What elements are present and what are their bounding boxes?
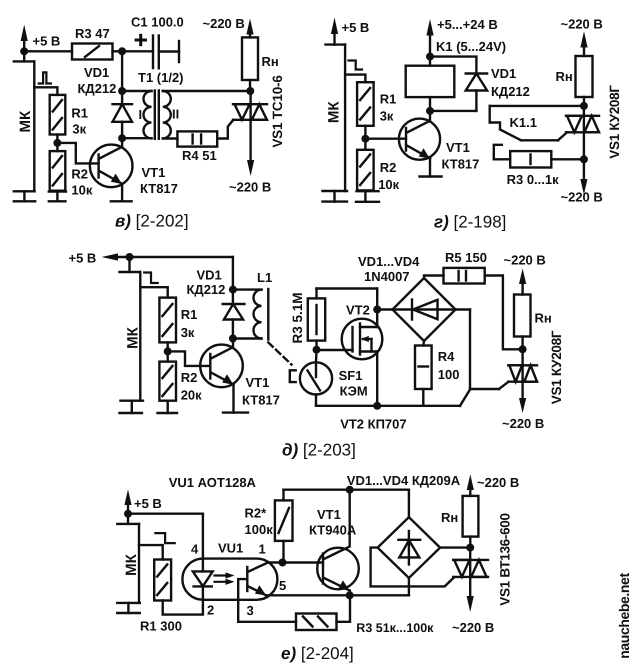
- power +5V arrow left (d): [69, 251, 130, 266]
- svg-text:КД212: КД212: [491, 84, 530, 99]
- ground MK (g): [323, 191, 348, 202]
- svg-text:VT2 КП707: VT2 КП707: [340, 417, 406, 432]
- node drain/bridge (d): [373, 306, 381, 314]
- resistor R2 20k (d): [159, 362, 202, 403]
- transistor VT1 KT817 (d): [200, 339, 280, 413]
- wire emitter node to bridge bottom (e): [350, 594, 409, 596]
- svg-text:МК: МК: [123, 553, 140, 575]
- wire R1-R2 with node (g): [364, 126, 366, 150]
- svg-text:R4 51: R4 51: [182, 148, 217, 163]
- pulse symbol (g): [349, 61, 363, 70]
- wire top to VD1/L1 node: [232, 257, 234, 290]
- svg-text:~220 В: ~220 В: [229, 180, 271, 195]
- load Rn (e): [441, 496, 478, 548]
- wire MK pin to R1: [34, 87, 57, 95]
- ground MK (v): [14, 191, 35, 201]
- pulse symbol (e): [155, 533, 174, 543]
- wire gate (d): [317, 349, 353, 351]
- svg-text:3к: 3к: [181, 325, 195, 340]
- wire bridge left corner to triac gate (e): [371, 548, 454, 587]
- svg-text:4: 4: [191, 542, 199, 557]
- wire R1-R2 with node: [56, 135, 58, 152]
- transistor VT1 KT817 (v): [90, 138, 178, 201]
- pulse symbol (d): [144, 273, 158, 284]
- wire top rail K1.1 (g): [490, 105, 584, 107]
- svg-text:+5 В: +5 В: [33, 34, 61, 49]
- svg-text:R4: R4: [438, 349, 455, 364]
- wire opto emitter to node (e): [266, 594, 350, 596]
- wire node to VT1 base (g): [365, 137, 406, 139]
- svg-text:КТ817: КТ817: [242, 393, 280, 408]
- svg-text:VS1 ВТ136-600: VS1 ВТ136-600: [498, 513, 513, 605]
- svg-text:~220 В: ~220 В: [561, 190, 603, 205]
- LED inside VU1: [193, 571, 213, 586]
- svg-text:~220 В: ~220 В: [477, 475, 519, 490]
- svg-text:+5 В: +5 В: [342, 20, 370, 35]
- svg-text:+5 В: +5 В: [69, 251, 97, 266]
- svg-text:2: 2: [207, 603, 214, 618]
- svg-text:1: 1: [259, 542, 266, 557]
- triac VS1 KU208G (g): [566, 85, 622, 160]
- resistor R1 300: [140, 560, 182, 634]
- svg-text:VT1: VT1: [446, 140, 470, 155]
- svg-text:R1: R1: [380, 92, 397, 107]
- ground R2 (d): [158, 401, 178, 413]
- svg-text:R3 51к...100к: R3 51к...100к: [356, 621, 434, 635]
- capacitor C1 100.0: [131, 15, 184, 69]
- diode VD1 KD212 (v): [78, 65, 133, 138]
- triac VS1 BT136-600: [453, 513, 512, 605]
- svg-text:е) [2-204]: е) [2-204]: [281, 644, 354, 663]
- node triac bottom (g): [580, 155, 588, 163]
- MCU MK block (g): [326, 45, 346, 191]
- node triac top (g): [580, 102, 588, 110]
- wire node to VT1 base (d): [168, 351, 211, 366]
- wire node down to VD1/T1: [121, 51, 123, 91]
- svg-text:L1: L1: [257, 270, 272, 285]
- wire node to VD1 (g): [430, 57, 476, 74]
- node R1/R2 (g): [361, 135, 369, 143]
- wire MK pin to R1 (e): [139, 545, 163, 559]
- svg-text:nauchebe.net: nauchebe.net: [616, 573, 632, 659]
- resistor R3 0...1k: [507, 151, 560, 187]
- svg-text:Rн: Rн: [441, 510, 458, 525]
- triac VS1 KU208G (d): [508, 330, 564, 404]
- transformer T1 (1/2): [122, 70, 183, 139]
- svg-text:д) [2-203]: д) [2-203]: [282, 441, 356, 460]
- svg-text:R2: R2: [380, 160, 397, 175]
- svg-text:I: I: [139, 107, 143, 122]
- svg-text:МК: МК: [125, 326, 142, 348]
- svg-text:~220 В: ~220 В: [561, 17, 603, 32]
- load Rn (g): [556, 56, 593, 106]
- svg-text:VD1: VD1: [197, 268, 222, 283]
- node +5V (e): [124, 510, 132, 518]
- svg-text:VU1 АОТ128А: VU1 АОТ128А: [169, 475, 257, 490]
- node R1/R2 (v): [53, 139, 61, 147]
- diode VD1 KD212 (d): [187, 268, 245, 339]
- wire +5V to opto pin4: [128, 514, 203, 572]
- node source/rail (d): [373, 402, 381, 410]
- light arrows: [215, 572, 235, 585]
- svg-text:МК: МК: [17, 110, 34, 132]
- ground VT1 emitter (d): [223, 411, 248, 413]
- svg-text:VD1...VD4 КД209А: VD1...VD4 КД209А: [347, 473, 461, 488]
- wire bridge bottom to emitter rail (e): [408, 578, 410, 595]
- bridge rectifier VD1...VD4 1N4007: [358, 254, 456, 341]
- svg-text:~220 В: ~220 В: [452, 620, 494, 635]
- svg-text:~220 В: ~220 В: [203, 16, 245, 31]
- svg-text:VD1: VD1: [84, 65, 109, 80]
- bridge rectifier VD1...VD4 KD209A: [347, 473, 461, 578]
- svg-text:КТ817: КТ817: [442, 157, 480, 172]
- node triac top (v): [246, 87, 254, 95]
- resistor R2 10k (g): [357, 150, 400, 192]
- ground MK (e): [117, 603, 140, 613]
- ground R2 (g): [356, 191, 379, 202]
- svg-text:R2*: R2*: [245, 506, 268, 521]
- wire collector to VT1 base (e): [268, 561, 323, 563]
- wire T1 secondary top to triac node: [163, 90, 251, 92]
- MCU MK block (e): [117, 514, 140, 603]
- svg-text:R2: R2: [181, 370, 198, 385]
- resistor R2* 100k: [245, 490, 293, 563]
- resistor R2 10k (v): [50, 151, 93, 197]
- pulse symbol (v): [39, 72, 51, 83]
- wire R5 to triac node (d): [485, 276, 523, 350]
- arrow down ~220V (v): [229, 120, 271, 195]
- svg-text:R3 5.1M: R3 5.1M: [290, 292, 305, 343]
- node +5V (d): [126, 253, 134, 261]
- svg-text:Rн: Rн: [535, 311, 552, 326]
- MCU MK block (d): [120, 257, 142, 401]
- resistor R3 5.1M (d): [290, 289, 325, 350]
- node T1 primary bottom: [118, 134, 126, 142]
- node R3 bottom / gate (d): [313, 346, 321, 354]
- wire R4 to triac gate: [217, 120, 233, 139]
- wire R1-R2 with node (d): [166, 342, 168, 361]
- node R1/R2 (d): [164, 347, 172, 355]
- svg-text:1N4007: 1N4007: [364, 269, 410, 284]
- node R2/base (e): [279, 559, 287, 567]
- triac VS1 TS10-6: [233, 75, 285, 148]
- arrow down ~220V (e): [452, 577, 494, 635]
- dashed magnetic coupling L1-SF1: [268, 343, 291, 365]
- MOSFET VT2 KP707: [342, 303, 383, 406]
- svg-text:C1 100.0: C1 100.0: [131, 15, 184, 30]
- svg-text:K1 (5...24V): K1 (5...24V): [436, 39, 506, 54]
- svg-text:R1: R1: [181, 307, 198, 322]
- node emitter (e): [346, 591, 354, 599]
- top wire to drain (d): [317, 289, 378, 328]
- svg-text:SF1: SF1: [339, 368, 363, 383]
- svg-text:R3 0...1к: R3 0...1к: [507, 172, 560, 187]
- svg-text:VS1 ТС10-6: VS1 ТС10-6: [270, 75, 285, 148]
- svg-text:5: 5: [279, 578, 286, 593]
- arrow up ~220V (e): [467, 474, 520, 496]
- wire node to primary: [122, 90, 151, 92]
- MCU MK block (v): [14, 51, 35, 191]
- resistor R3 51k...100k: [296, 614, 434, 636]
- svg-text:VT2: VT2: [346, 303, 370, 318]
- svg-text:R2: R2: [71, 167, 88, 182]
- svg-text:R1 300: R1 300: [140, 619, 182, 634]
- node relay top (g): [426, 53, 434, 61]
- resistor R1 3k (v): [50, 95, 88, 137]
- node +5V junction (v): [20, 47, 28, 55]
- svg-text:R5 150: R5 150: [445, 250, 487, 265]
- svg-text:10к: 10к: [378, 177, 399, 192]
- wire R3 to triac node (g): [551, 158, 584, 160]
- svg-text:МК: МК: [326, 101, 343, 123]
- wire T1 secondary bottom to R4: [163, 137, 178, 139]
- svg-text:II: II: [172, 107, 179, 122]
- svg-text:K1.1: K1.1: [510, 115, 537, 130]
- transistor VT1 KT817 (g): [399, 111, 479, 177]
- power +5V arrow (e): [124, 490, 161, 514]
- svg-text:~220 В: ~220 В: [504, 253, 546, 268]
- arrow up ~220V (d): [504, 253, 546, 295]
- ground VT1 emitter (g): [420, 175, 442, 177]
- arrow +5...+24V (g): [426, 17, 497, 57]
- resistor R1 3k (g): [357, 82, 396, 126]
- wire node to VT1 base: [57, 143, 98, 164]
- svg-text:+5 В: +5 В: [134, 496, 162, 511]
- wire bridge right corner to triac node (e): [440, 546, 470, 548]
- svg-text:Rн: Rн: [262, 54, 279, 69]
- svg-text:3к: 3к: [380, 109, 394, 124]
- transistor VT1 KT940A: [309, 490, 359, 596]
- load Rn (d): [514, 295, 552, 350]
- resistor R4 51: [177, 131, 217, 163]
- node VD1/L1 top (d): [229, 286, 237, 294]
- svg-text:VS1 КУ208Г: VS1 КУ208Г: [549, 330, 564, 404]
- gate wiring to bridge right corner (d): [456, 310, 509, 406]
- contact lower terminal to R3 (g): [494, 145, 510, 160]
- svg-text:Rн: Rн: [556, 69, 573, 84]
- inductor L1 electromagnet: [233, 270, 272, 340]
- wire MK pin to R1 (d): [140, 287, 167, 297]
- node collector/top wire (e): [346, 486, 354, 494]
- wire R1 to opto pin2: [163, 586, 203, 614]
- svg-text:20к: 20к: [181, 388, 202, 403]
- resistor R5 150: [424, 250, 487, 284]
- svg-text:R1: R1: [71, 106, 88, 121]
- phototransistor inside VU1: [238, 563, 296, 622]
- node T1 primary top: [118, 87, 126, 95]
- ground VT1 emitter (v): [111, 200, 132, 202]
- svg-text:КЭМ: КЭМ: [340, 384, 368, 399]
- arrow up ~220V (g): [561, 17, 603, 57]
- svg-text:КТ817: КТ817: [140, 181, 178, 196]
- wire MK pin to R1 (g): [345, 75, 365, 83]
- svg-text:г) [2-198]: г) [2-198]: [434, 213, 506, 232]
- svg-text:3: 3: [247, 603, 254, 618]
- svg-text:VT1: VT1: [246, 375, 270, 390]
- top wire (d): [130, 256, 233, 258]
- wire R3 to emitter node (e): [337, 595, 351, 622]
- load Rn (v): [242, 37, 279, 91]
- diode VD1 KD212 (g): [430, 66, 530, 111]
- wire +5V to R3: [24, 50, 72, 52]
- svg-text:3к: 3к: [72, 122, 86, 137]
- resistor R1 3k (d): [159, 298, 197, 343]
- svg-text:10к: 10к: [71, 183, 92, 198]
- power +5V arrow (g): [331, 18, 369, 45]
- wire R3 to C1: [113, 50, 154, 52]
- ground R2 (v): [49, 192, 66, 202]
- power +5V arrow (v): [21, 25, 61, 52]
- svg-text:VS1 КУ208Г: VS1 КУ208Г: [607, 85, 622, 159]
- svg-text:КД212: КД212: [78, 81, 117, 96]
- optocoupler VU1 body: [182, 541, 286, 619]
- svg-text:в) [2-202]: в) [2-202]: [115, 212, 189, 231]
- reed switch SF1 KEM: [290, 350, 368, 406]
- node R3/VD1 junction: [118, 47, 126, 55]
- arrow down ~220V (d): [502, 382, 544, 431]
- ground MK (d): [120, 401, 144, 413]
- node relay bottom (g): [426, 107, 434, 115]
- svg-text:R3 47: R3 47: [75, 26, 110, 41]
- svg-text:+5...+24 В: +5...+24 В: [437, 17, 498, 32]
- bottom rail (d): [316, 405, 460, 407]
- svg-text:VD1...VD4: VD1...VD4: [358, 254, 420, 269]
- resistor R3 47: [72, 26, 113, 60]
- svg-text:~220 В: ~220 В: [502, 416, 544, 431]
- svg-text:VT1: VT1: [317, 507, 341, 522]
- svg-text:T1 (1/2): T1 (1/2): [138, 70, 184, 85]
- svg-text:КД212: КД212: [187, 282, 226, 297]
- svg-text:VU1: VU1: [218, 541, 243, 556]
- node VD1/L1 bottom (d): [229, 335, 237, 343]
- arrow up ~220V (v): [203, 16, 254, 38]
- node Rn/triac (e): [466, 544, 474, 552]
- svg-text:100: 100: [438, 367, 460, 382]
- node Rn/triac (d): [519, 345, 527, 353]
- relay K1 coil: [406, 39, 506, 111]
- wire node to bridge left corner (d): [377, 308, 392, 310]
- arrow down ~220V (g): [561, 159, 603, 204]
- top wire (e): [284, 490, 409, 518]
- resistor R4 100: [415, 341, 460, 406]
- svg-text:VD1: VD1: [491, 66, 516, 81]
- svg-text:100к: 100к: [245, 522, 274, 537]
- svg-text:VT1: VT1: [142, 165, 166, 180]
- contact K1.1: [490, 106, 567, 140]
